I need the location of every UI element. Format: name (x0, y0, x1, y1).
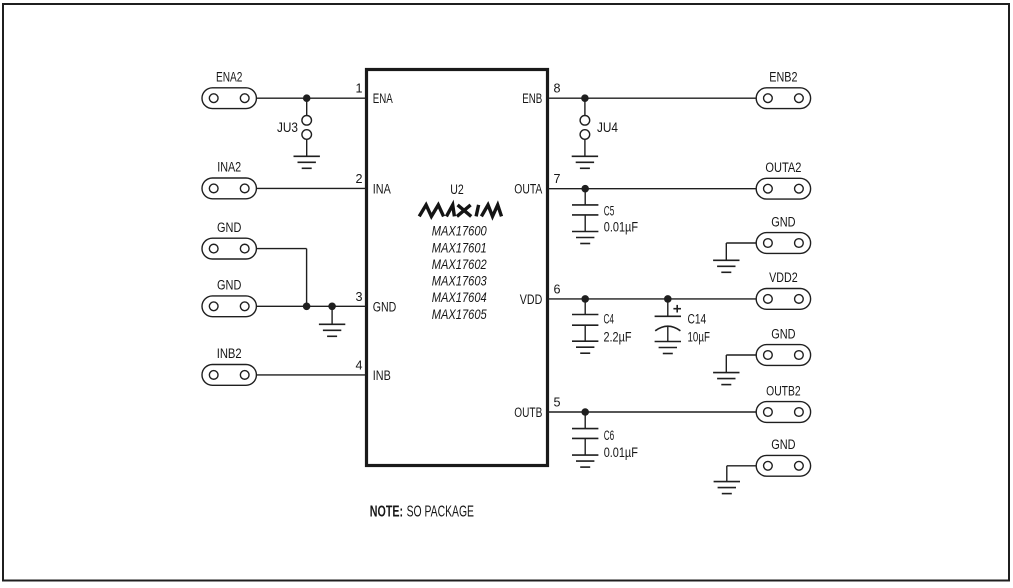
pin 2 label INA (373, 181, 391, 196)
svg-text:INB2: INB2 (217, 346, 242, 361)
svg-text:GND: GND (373, 299, 397, 314)
svg-text:VDD: VDD (520, 292, 543, 307)
label GND (771, 437, 796, 452)
pin 5 label OUTB (514, 405, 542, 420)
ground below C5 (572, 232, 598, 244)
svg-text:MAX17604: MAX17604 (432, 289, 487, 305)
connector pad GND upper left (202, 238, 256, 259)
svg-text:MAX17602: MAX17602 (432, 256, 487, 272)
svg-text:INA2: INA2 (217, 160, 241, 175)
node junction ENB (581, 94, 589, 102)
svg-text:MAX17601: MAX17601 (432, 239, 487, 255)
pin number 1 (355, 82, 362, 96)
pin 3 label GND (373, 299, 397, 314)
svg-text:VDD2: VDD2 (769, 270, 798, 285)
pin number 4 (355, 358, 362, 372)
svg-text:GND: GND (217, 278, 242, 293)
wire GND pad 2 hook (726, 355, 756, 373)
pin number 2 (355, 172, 362, 186)
svg-text:ENB: ENB (522, 91, 542, 106)
svg-text:MAX17603: MAX17603 (432, 273, 487, 289)
connector pad GND right 1 (756, 233, 810, 254)
ground below JU4 (572, 156, 598, 168)
wire INA2 to pin 2 (256, 187, 366, 189)
connector pad ENA2 (202, 88, 256, 109)
label GND (771, 326, 796, 341)
svg-text:4: 4 (355, 358, 362, 372)
pin number 5 (554, 396, 561, 410)
svg-text:U2: U2 (450, 182, 464, 197)
svg-text:NOTE:: NOTE: (370, 504, 403, 521)
svg-text:3: 3 (355, 290, 362, 304)
label VDD2 (769, 270, 798, 285)
svg-text:0.01µF: 0.01µF (604, 445, 638, 460)
value 0.01uF (604, 445, 638, 460)
ground right 1 (713, 260, 739, 272)
label OUTB2 (766, 383, 801, 398)
svg-text:INA: INA (373, 181, 391, 196)
svg-text:C5: C5 (604, 203, 615, 218)
svg-text:SO PACKAGE: SO PACKAGE (407, 504, 474, 521)
pin number 8 (554, 82, 561, 96)
label ENA2 (216, 70, 242, 85)
svg-text:10µF: 10µF (688, 330, 710, 345)
label C6 (604, 428, 615, 443)
connector pad OUTB2 (756, 402, 810, 423)
svg-text:ENA: ENA (373, 91, 393, 106)
svg-text:7: 7 (554, 172, 561, 186)
ground right 2 (713, 373, 739, 385)
connector pad INB2 (202, 365, 256, 386)
svg-text:INB: INB (373, 368, 391, 383)
svg-text:GND: GND (771, 437, 796, 452)
node junction GND vertical (303, 303, 311, 311)
connector pad INA2 (202, 178, 256, 199)
svg-text:2.2µF: 2.2µF (604, 330, 632, 345)
wire INB2 to pin 4 (256, 374, 366, 376)
svg-text:OUTA2: OUTA2 (765, 160, 801, 175)
pin 7 label OUTA (514, 182, 542, 197)
label C14 (688, 311, 707, 326)
label OUTA2 (765, 160, 801, 175)
connector pad GND lower left (202, 296, 256, 317)
connector pad ENB2 (756, 88, 810, 109)
wire pin 7 to OUTA2 (548, 188, 757, 190)
label GND (771, 214, 796, 229)
pin number 3 (355, 290, 362, 304)
svg-text:C14: C14 (688, 311, 707, 326)
svg-text:ENB2: ENB2 (769, 70, 797, 85)
connector pad GND right 3 (756, 455, 810, 476)
wire junction to ground (331, 306, 333, 324)
capacitor C14 polarised (655, 299, 681, 342)
ground at pin 3 (319, 324, 345, 336)
pin 8 label ENB (522, 91, 542, 106)
ground below C14 (655, 342, 681, 354)
svg-text:GND: GND (217, 220, 242, 235)
svg-text:JU4: JU4 (597, 120, 618, 135)
plus sign C14 (673, 305, 681, 313)
label INA2 (217, 160, 241, 175)
ground below C4 (572, 341, 598, 353)
svg-text:MAX17600: MAX17600 (432, 223, 487, 239)
pin 6 label VDD (520, 292, 543, 307)
svg-text:ENA2: ENA2 (216, 70, 242, 85)
svg-text:1: 1 (355, 82, 362, 96)
label GND (217, 278, 242, 293)
capacitor C5 (572, 189, 598, 232)
ground below C6 (572, 455, 598, 467)
svg-text:C4: C4 (604, 311, 615, 326)
wire pin 6 to VDD2 (548, 298, 757, 300)
wire GND pads to pin 3 (256, 305, 366, 307)
IC U2 body (367, 70, 548, 466)
svg-text:MAX17605: MAX17605 (432, 306, 487, 322)
ground below JU3 (294, 156, 320, 168)
label C4 (604, 311, 615, 326)
IC U2 part number list (432, 223, 487, 322)
note text (370, 504, 474, 521)
capacitor C4 (572, 299, 598, 341)
label JU3 (277, 120, 298, 135)
wire pin 8 to ENB2 (548, 97, 757, 99)
svg-text:5: 5 (554, 396, 561, 410)
svg-text:2: 2 (355, 172, 362, 186)
wire pin 5 to OUTB2 (548, 411, 757, 413)
svg-text:C6: C6 (604, 428, 615, 443)
jumper JU4 (580, 98, 590, 156)
value 2.2uF (604, 330, 632, 345)
wire ENA2 to pin 1 (256, 97, 366, 99)
wire GND pad 1 hook (726, 243, 756, 260)
connector pad VDD2 (756, 289, 810, 310)
node junction OUTB (581, 408, 589, 416)
label JU4 (597, 120, 618, 135)
jumper JU3 (302, 98, 312, 156)
capacitor C6 (572, 412, 598, 455)
MAXIM logo (419, 205, 501, 217)
ground right 3 (714, 482, 740, 494)
label ENB2 (769, 70, 797, 85)
label C5 (604, 203, 615, 218)
label INB2 (217, 346, 242, 361)
pin 4 label INB (373, 368, 391, 383)
pin number 7 (554, 172, 561, 186)
wire GND pad 3 hook (727, 466, 756, 482)
node junction VDD C14 (664, 295, 672, 303)
value 10uF (688, 330, 710, 345)
svg-text:OUTA: OUTA (514, 182, 542, 197)
svg-text:OUTB: OUTB (514, 405, 542, 420)
connector pad GND right 2 (756, 345, 810, 366)
pin 1 label ENA (373, 91, 393, 106)
node junction OUTA (581, 185, 589, 193)
label GND (217, 220, 242, 235)
svg-text:0.01µF: 0.01µF (604, 220, 638, 235)
svg-text:JU3: JU3 (277, 120, 298, 135)
node junction VDD C4 (581, 295, 589, 303)
svg-text:8: 8 (554, 82, 561, 96)
svg-text:OUTB2: OUTB2 (766, 383, 801, 398)
node junction ENA (303, 94, 311, 102)
svg-text:GND: GND (771, 214, 796, 229)
value 0.01uF (604, 220, 638, 235)
node junction GND symbol (328, 303, 336, 311)
svg-text:GND: GND (771, 326, 796, 341)
wire GND upper pad to node (256, 249, 306, 307)
connector pad OUTA2 (756, 178, 810, 199)
svg-text:6: 6 (554, 282, 561, 296)
pin number 6 (554, 282, 561, 296)
